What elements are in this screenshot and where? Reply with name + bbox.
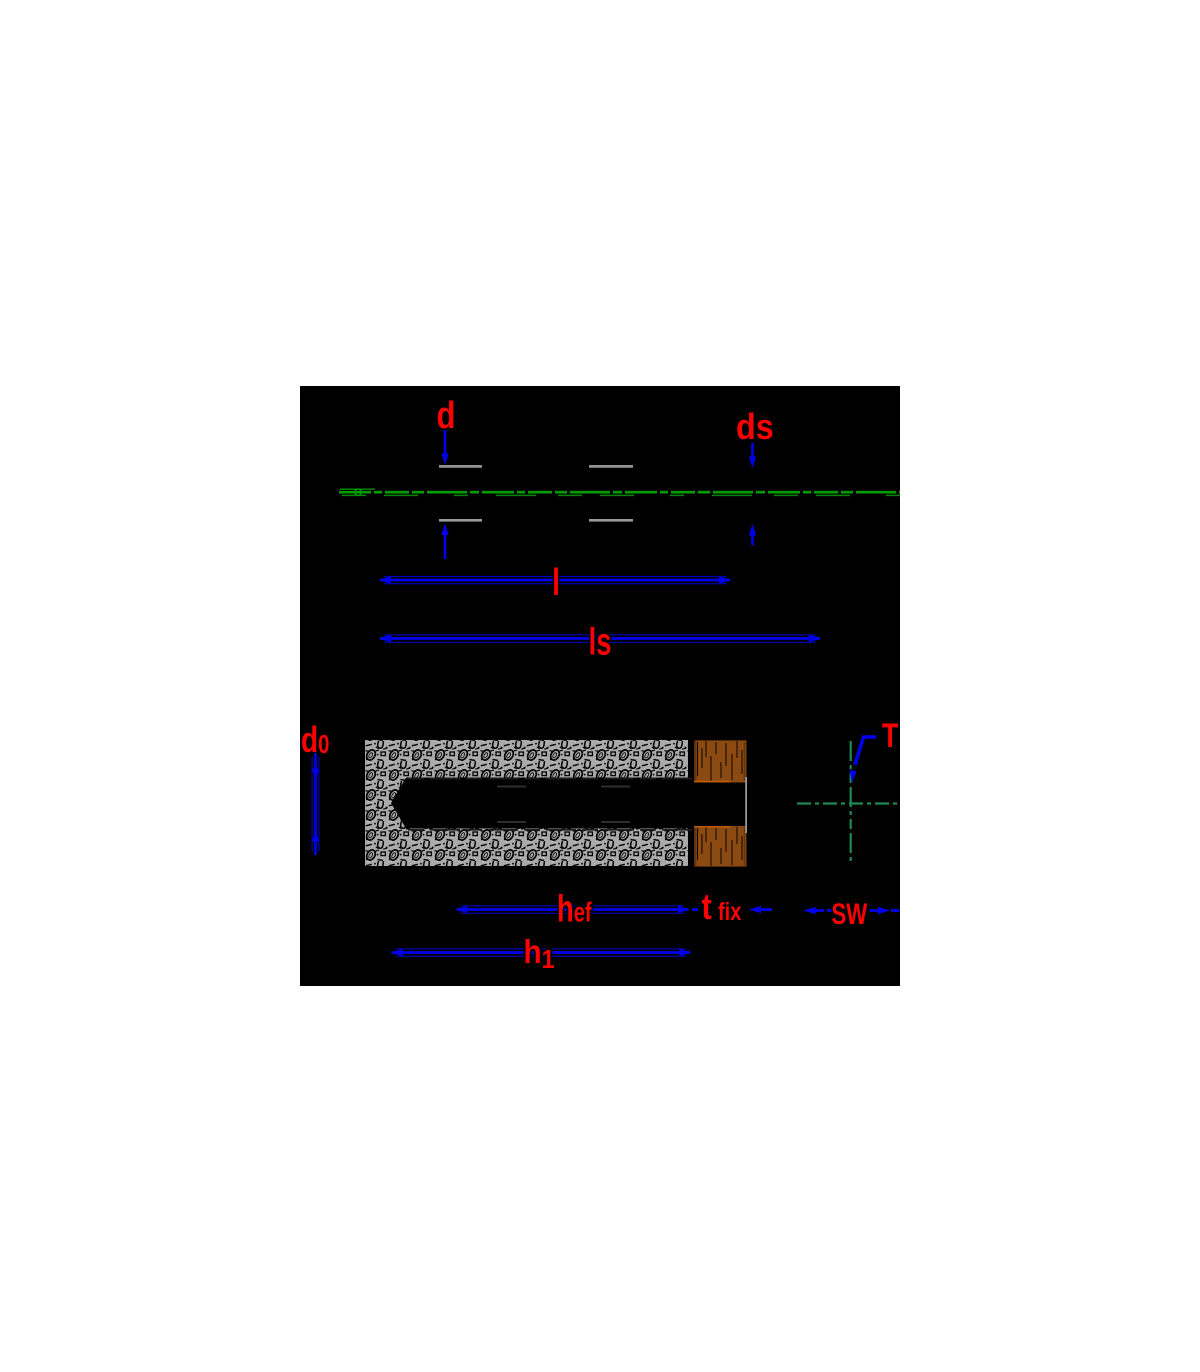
faint hole edge dashed lines [408,779,692,830]
thread highlight top-right [589,465,633,468]
concrete block with hatch [365,740,688,866]
dim arrow ds bottom (up) [749,524,756,545]
svg-text:fix: fix [718,898,742,926]
svg-text:SW: SW [832,897,868,931]
svg-text:h1: h1 [524,934,555,975]
svg-text:ls: ls [589,621,612,663]
thread highlight bottom-right [589,519,633,522]
svg-text:l: l [552,562,560,604]
dimension l [379,576,732,584]
centerline (green) [339,489,900,495]
dimension hef [455,906,690,913]
label T [882,717,899,755]
label d0 [301,720,329,760]
washer edge (gray) [745,777,747,833]
dimension h1 [391,949,692,956]
label ds [736,407,774,447]
thread highlight top-left [439,465,482,468]
crosshair horizontal (green) [797,802,900,804]
label ls [589,621,612,663]
dim arrow d top (down) [441,430,448,465]
label d [437,395,456,437]
faint thread crest lines in hole [497,786,630,824]
dimension d0 (vertical) [312,753,319,855]
svg-text:hef: hef [557,888,592,930]
label SW [832,897,868,931]
svg-text:T: T [882,717,899,755]
label l [552,562,560,604]
dim arrow d bottom (up) [441,524,448,560]
crosshair vertical (green) [850,741,852,865]
svg-text:ds: ds [736,407,774,447]
label t fix [702,888,712,928]
dimension ls [379,635,822,643]
dim arrow ds top (down) [749,443,756,468]
torque arrow T [855,737,876,765]
wood fixture bottom [694,826,746,867]
drill hole (black) [391,778,689,829]
wood fixture top [694,740,746,782]
svg-text:t: t [702,888,712,928]
dimension t fix [692,906,772,913]
dimension SW arrows [804,907,900,914]
thread highlight bottom-left [439,519,482,522]
label h1 [524,934,555,975]
label hef [557,888,592,930]
drawing panel [300,386,900,986]
